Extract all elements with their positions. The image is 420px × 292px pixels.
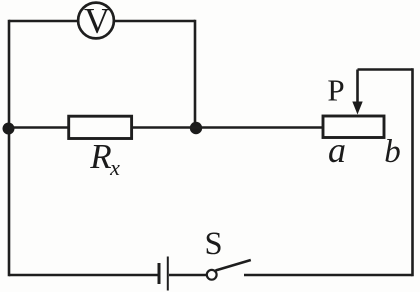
wire wiper top horizontal (358, 68, 413, 71)
svg-text:P: P (327, 73, 344, 108)
svg-text:R: R (89, 137, 111, 176)
wire middle left segment (9, 126, 68, 129)
wire vertical down to junction (194, 20, 197, 124)
wire left vertical (8, 20, 11, 277)
wire voltmeter to top-right corner (115, 20, 196, 23)
wire bottom left segment (9, 274, 158, 277)
svg-text:a: a (328, 130, 346, 170)
wire right vertical (411, 68, 414, 276)
svg-text:S: S (204, 226, 222, 262)
switch S (204, 226, 250, 280)
wire bottom right segment (244, 274, 413, 277)
wire resistor to junction (132, 126, 196, 129)
battery (159, 257, 168, 291)
svg-text:x: x (109, 155, 120, 180)
svg-text:b: b (384, 134, 401, 170)
voltmeter V (78, 1, 114, 41)
wiper arrow of rheostat (352, 70, 362, 115)
rheostat P (box) (323, 116, 384, 138)
resistor Rx (69, 116, 132, 180)
wire top-left horizontal (9, 20, 77, 23)
wire junction to rheostat (196, 126, 322, 129)
node junction right (190, 122, 202, 134)
svg-text:V: V (84, 1, 110, 41)
node junction left (3, 123, 15, 135)
wire switch to battery (169, 274, 207, 277)
